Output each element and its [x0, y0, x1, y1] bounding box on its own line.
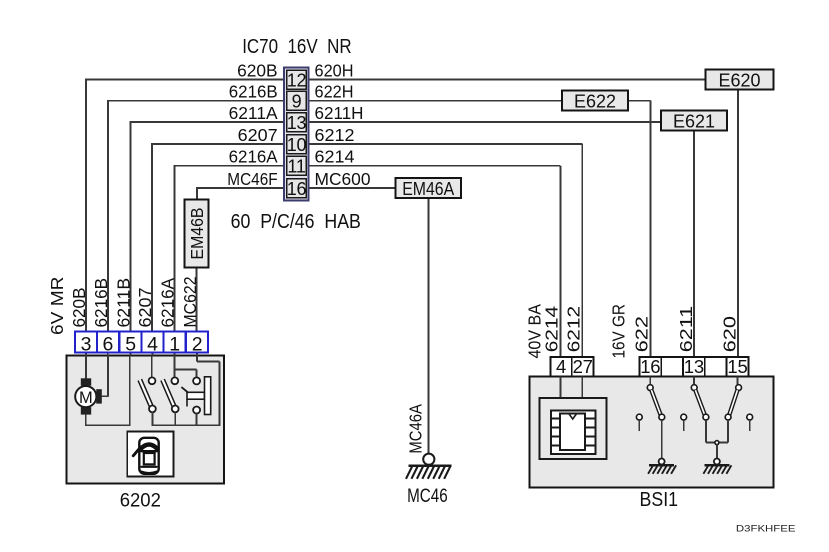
svg-text:6211: 6211 [676, 306, 696, 352]
svg-text:5: 5 [125, 334, 136, 356]
svg-text:6207: 6207 [238, 125, 278, 145]
svg-text:620B: 620B [237, 60, 278, 80]
svg-text:6216B: 6216B [229, 82, 278, 102]
svg-text:620H: 620H [315, 60, 354, 80]
svg-text:6212: 6212 [315, 125, 355, 145]
svg-text:2: 2 [192, 334, 203, 356]
svg-text:622: 622 [631, 316, 651, 352]
svg-text:9: 9 [292, 92, 302, 112]
svg-text:6207: 6207 [135, 288, 155, 328]
svg-text:4: 4 [556, 356, 566, 377]
svg-text:MC46F: MC46F [227, 169, 277, 189]
svg-text:6214: 6214 [315, 147, 355, 167]
svg-text:3: 3 [81, 334, 92, 356]
svg-text:11: 11 [287, 157, 305, 177]
svg-text:40V BA: 40V BA [525, 304, 545, 359]
svg-text:15: 15 [727, 356, 747, 377]
svg-text:MC46: MC46 [407, 486, 448, 507]
svg-text:6202: 6202 [120, 491, 161, 512]
svg-text:6216A: 6216A [158, 278, 178, 328]
svg-text:622H: 622H [315, 82, 354, 102]
svg-text:4: 4 [147, 334, 158, 356]
svg-text:E622: E622 [574, 92, 616, 112]
svg-text:1: 1 [169, 334, 180, 356]
svg-text:6214: 6214 [542, 306, 562, 353]
svg-text:EM46B: EM46B [187, 208, 207, 260]
svg-text:MC46A: MC46A [406, 404, 426, 454]
svg-text:620: 620 [720, 316, 740, 353]
svg-text:BSI1: BSI1 [640, 489, 679, 511]
svg-text:EM46A: EM46A [402, 179, 454, 199]
svg-text:6V MR: 6V MR [47, 277, 67, 336]
svg-text:13: 13 [684, 356, 704, 377]
svg-text:E620: E620 [719, 71, 761, 91]
svg-text:620B: 620B [69, 288, 89, 328]
svg-text:10: 10 [287, 135, 307, 155]
svg-text:MC600: MC600 [315, 169, 371, 189]
svg-text:6211B: 6211B [114, 278, 134, 328]
svg-text:16V GR: 16V GR [608, 304, 628, 358]
svg-text:12: 12 [287, 70, 307, 90]
svg-text:M: M [79, 389, 93, 407]
svg-text:6: 6 [102, 334, 113, 356]
svg-text:IC70 16V NR: IC70 16V NR [242, 36, 351, 58]
svg-text:6216B: 6216B [91, 278, 111, 328]
svg-text:D3FKHFEE: D3FKHFEE [736, 523, 796, 533]
svg-text:6216A: 6216A [229, 147, 278, 167]
svg-text:16: 16 [640, 356, 660, 377]
svg-text:6211A: 6211A [229, 103, 278, 123]
svg-text:MC622: MC622 [180, 277, 200, 328]
svg-text:6212: 6212 [563, 306, 583, 352]
svg-text:13: 13 [287, 113, 307, 133]
svg-text:6211H: 6211H [315, 103, 364, 123]
svg-text:27: 27 [573, 356, 593, 377]
svg-text:16: 16 [287, 179, 307, 199]
svg-text:E621: E621 [673, 112, 715, 132]
svg-text:60 P/C/46 HAB: 60 P/C/46 HAB [231, 211, 361, 233]
